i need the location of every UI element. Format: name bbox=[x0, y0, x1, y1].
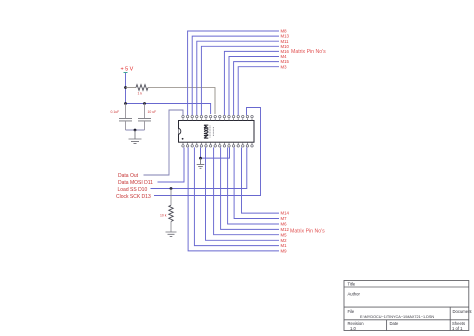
wire top fan 2 bbox=[192, 36, 279, 115]
svg-text:Matrix Pin No's: Matrix Pin No's bbox=[291, 49, 326, 55]
wire top fan 4 bbox=[201, 46, 279, 115]
ground G1 bbox=[129, 130, 142, 144]
svg-text:10 k: 10 k bbox=[160, 214, 167, 218]
wire Data MOSI D11 bbox=[118, 147, 184, 186]
wire top fan 7 bbox=[234, 62, 279, 116]
svg-text:M14: M14 bbox=[281, 211, 290, 216]
wire Load SS D10 bbox=[118, 147, 247, 193]
wire Clock SCK D13 bbox=[116, 108, 261, 201]
wire bottom fan 8 bbox=[188, 147, 279, 251]
svg-text:1 of 1: 1 of 1 bbox=[452, 326, 463, 331]
node C2 junction bbox=[143, 102, 146, 105]
ground G3 bbox=[197, 158, 205, 168]
wire bottom fan 1 bbox=[242, 147, 280, 213]
svg-text:1.0: 1.0 bbox=[350, 326, 356, 331]
svg-text:Document: Document bbox=[453, 309, 473, 314]
svg-text:Clock SCK D13: Clock SCK D13 bbox=[116, 194, 151, 200]
wire Data Out bbox=[118, 110, 183, 179]
wire +5V rail to pin bbox=[126, 104, 211, 115]
svg-text:Title: Title bbox=[348, 282, 356, 287]
svg-text:Date: Date bbox=[390, 321, 400, 326]
wire bottom fan 6 bbox=[206, 147, 280, 240]
wire +5V vertical bbox=[125, 73, 127, 104]
svg-text:M12: M12 bbox=[281, 227, 290, 232]
svg-text:M7: M7 bbox=[281, 216, 288, 221]
resistor R1 bbox=[126, 85, 216, 114]
wire top fan 8 bbox=[238, 67, 279, 115]
svg-text:1 k: 1 k bbox=[138, 92, 143, 96]
svg-text:Load SS D10: Load SS D10 bbox=[118, 187, 148, 193]
U1 top pins bbox=[182, 115, 253, 120]
svg-text:0.1uF: 0.1uF bbox=[111, 110, 120, 114]
power +5V bbox=[121, 67, 134, 73]
wire capacitor join bbox=[126, 129, 145, 131]
svg-text:Author: Author bbox=[348, 292, 361, 297]
svg-text:File: File bbox=[348, 309, 355, 314]
capacitor C2 bbox=[138, 104, 156, 131]
resistor R2 bbox=[160, 189, 173, 233]
node cap join junction bbox=[134, 129, 137, 132]
svg-text:Data MOSI D11: Data MOSI D11 bbox=[118, 180, 153, 186]
svg-text:10 uF: 10 uF bbox=[148, 110, 157, 114]
svg-text:Data Out: Data Out bbox=[118, 173, 139, 179]
svg-text:M6: M6 bbox=[281, 222, 288, 227]
wire top fan 1 bbox=[188, 31, 279, 115]
wire IC ground net bbox=[201, 147, 230, 158]
svg-text:+ 5 V: + 5 V bbox=[121, 67, 134, 73]
wire bottom fan 2 bbox=[234, 147, 279, 218]
node C1 junction bbox=[124, 102, 127, 105]
node R1 tap junction bbox=[124, 86, 127, 89]
svg-text:M3: M3 bbox=[281, 64, 288, 69]
title block bbox=[344, 281, 469, 331]
svg-text:M1: M1 bbox=[281, 243, 288, 248]
wire bottom fan 5 bbox=[214, 147, 279, 234]
capacitor C1 bbox=[111, 104, 133, 131]
wire top fan 3 bbox=[197, 41, 279, 115]
wire bottom fan 4 bbox=[221, 147, 279, 229]
svg-text:Matrix Pin No's: Matrix Pin No's bbox=[290, 229, 325, 235]
svg-text:M5: M5 bbox=[281, 232, 288, 237]
wire top fan 5 bbox=[224, 51, 279, 115]
svg-text:M2: M2 bbox=[281, 238, 288, 243]
op-amp U1 MAX7219 body bbox=[179, 121, 255, 143]
svg-text:M9: M9 bbox=[281, 249, 288, 254]
wire bottom fan 3 bbox=[228, 147, 279, 224]
wire top fan 6 bbox=[229, 57, 279, 116]
ground G2 bbox=[166, 232, 177, 236]
svg-text:E:\MYDOCU~1\TINYCA~1\MAX721~1.: E:\MYDOCU~1\TINYCA~1\MAX721~1.DSN bbox=[360, 315, 434, 319]
node IC ground junction bbox=[199, 157, 202, 160]
node Load SS junction bbox=[170, 187, 173, 190]
wire bottom fan 7 bbox=[194, 147, 279, 245]
U1 bottom pins bbox=[182, 142, 253, 147]
